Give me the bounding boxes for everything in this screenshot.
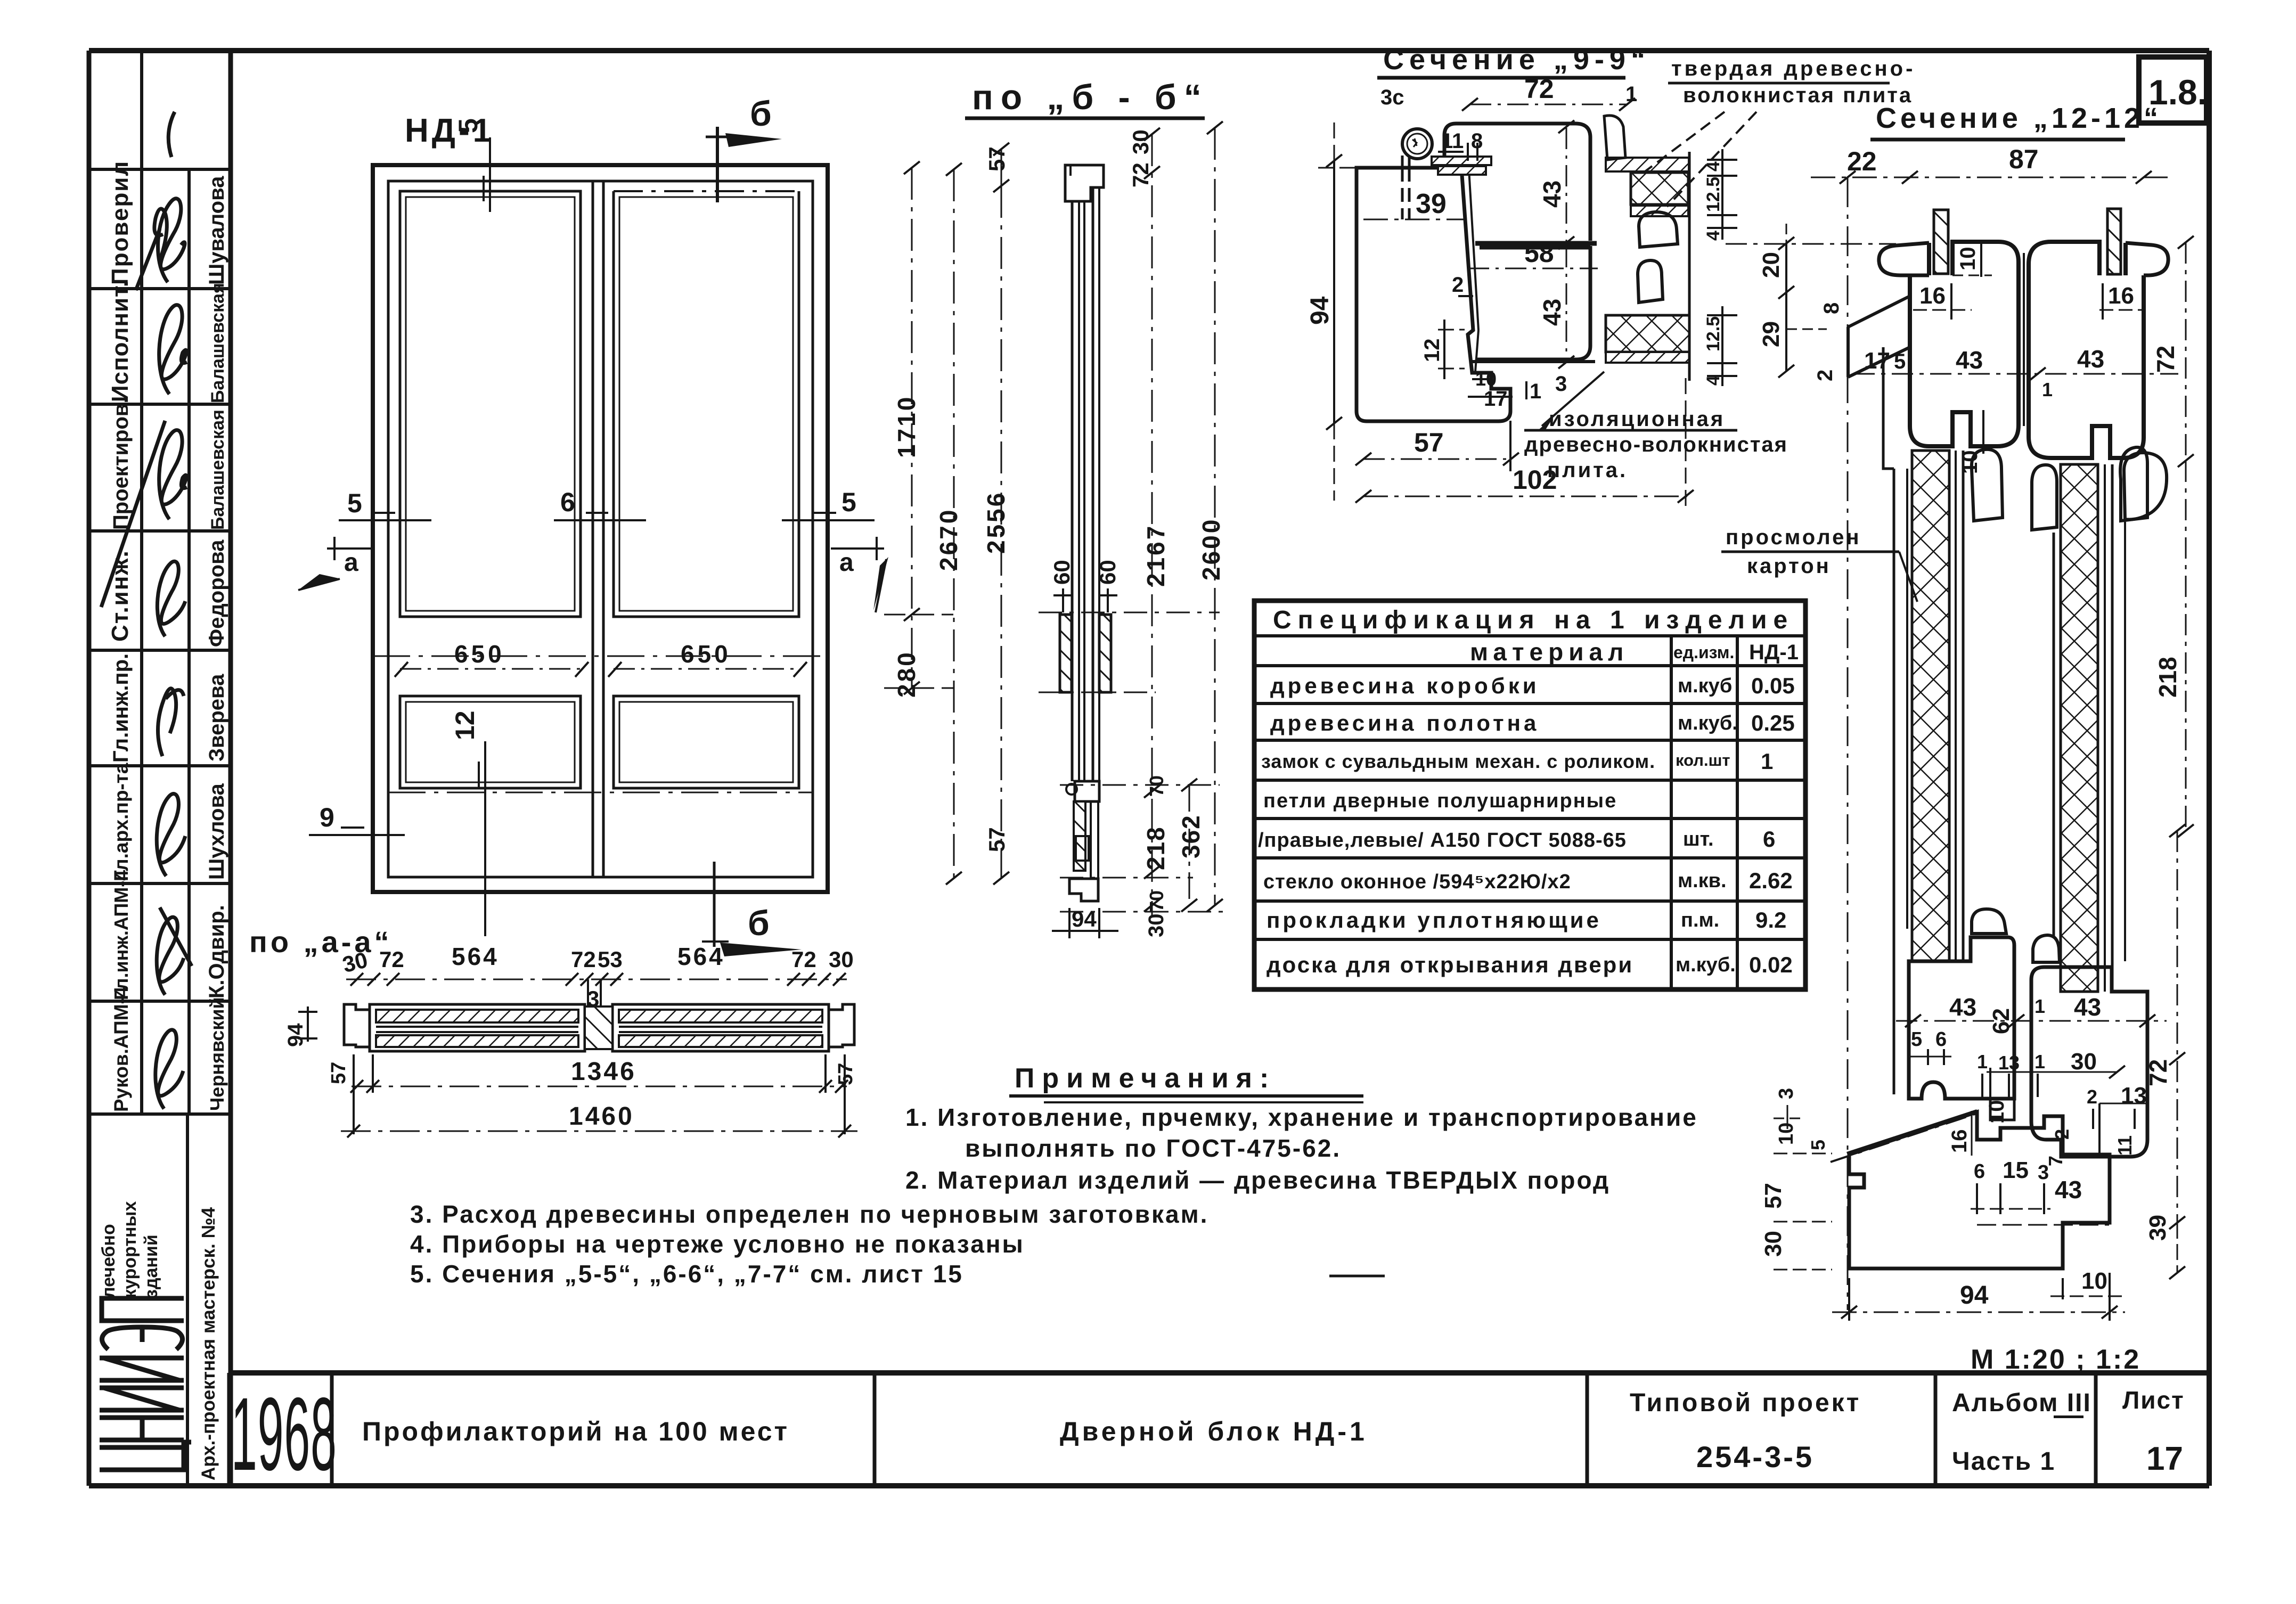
bead bumps below head profiles	[1972, 449, 2003, 521]
svg-text:1346: 1346	[571, 1058, 636, 1086]
fiberboard block upper	[1631, 173, 1688, 204]
svg-text:17: 17	[1864, 348, 1890, 374]
svg-text:12: 12	[450, 710, 480, 740]
section mark 6 center mid	[554, 487, 646, 520]
svg-text:Руков.АПМ-4: Руков.АПМ-4	[110, 986, 132, 1112]
svg-text:564: 564	[677, 943, 725, 970]
dims 10 17 1 at frame ledge	[1468, 368, 1567, 411]
svg-text:5: 5	[841, 487, 856, 517]
svg-text:2: 2	[2051, 1129, 2073, 1140]
svg-text:12.5: 12.5	[1703, 316, 1723, 351]
svg-text:Арх.-проектная мастерск. №4: Арх.-проектная мастерск. №4	[198, 1207, 219, 1480]
svg-text:a: a	[344, 549, 358, 577]
svg-text:1710: 1710	[893, 395, 920, 458]
profile body	[1910, 242, 2019, 446]
svg-text:6: 6	[1974, 1160, 1985, 1183]
svg-text:16: 16	[1948, 1130, 1971, 1153]
dim 650 left leaf	[395, 640, 589, 677]
dim line 2167 / 72 / 30 / 218 / 70	[1128, 128, 1170, 937]
svg-text:39: 39	[1416, 189, 1447, 219]
dim cluster middle (head)	[1913, 240, 2144, 474]
39 right bottom	[2177, 1223, 2178, 1273]
svg-text:15: 15	[2003, 1157, 2029, 1183]
section mark б bottom with arrow	[702, 862, 802, 956]
dim 39	[1363, 219, 1464, 220]
frame head slanted architrave left	[1848, 296, 1910, 377]
svg-text:по „а-а“: по „а-а“	[249, 925, 393, 959]
thin section top cap	[1065, 165, 1104, 201]
left strip bottom cell: institute logo and texts	[99, 1201, 219, 1480]
svg-text:17: 17	[2146, 1441, 2183, 1477]
svg-text:43: 43	[2077, 345, 2104, 373]
svg-text:1: 1	[1761, 749, 1773, 774]
svg-text:твердая древесно-: твердая древесно-	[1671, 57, 1915, 80]
svg-text:3: 3	[1775, 1088, 1797, 1099]
dim 72 top	[1470, 104, 1627, 105]
dim 650 right leaf	[608, 640, 807, 677]
vertical glazing strips right leaf	[2054, 464, 2125, 992]
svg-text:10: 10	[1475, 368, 1497, 390]
svg-text:43: 43	[1538, 181, 1566, 208]
dim line 2600	[1197, 121, 1225, 912]
svg-text:218: 218	[2154, 657, 2181, 698]
ear lobe	[2126, 243, 2168, 275]
svg-text:2: 2	[2087, 1086, 2097, 1108]
svg-text:13: 13	[2121, 1083, 2147, 1109]
svg-text:218: 218	[1142, 826, 1170, 870]
door frame inner	[388, 181, 813, 877]
dim 43 43 chain at mid head	[1813, 302, 2178, 400]
svg-text:Балашевская: Балашевская	[208, 410, 228, 530]
svg-text:94: 94	[284, 1023, 307, 1047]
svg-text:60: 60	[1095, 560, 1120, 585]
svg-text:57: 57	[835, 1063, 857, 1085]
thin section bottom assembly	[1066, 781, 1099, 901]
bead middle pieces	[1639, 212, 1678, 247]
svg-text:Сечение „9-9“: Сечение „9-9“	[1383, 44, 1650, 76]
dim line 2670	[935, 163, 962, 885]
rail centerline dashed	[373, 656, 828, 657]
svg-text:72: 72	[1128, 162, 1153, 187]
svg-text:1: 1	[2034, 995, 2045, 1017]
svg-text:10: 10	[1775, 1123, 1797, 1145]
svg-text:м.куб.: м.куб.	[1678, 712, 1738, 734]
lower dim cluster of section 12-12	[1760, 824, 2185, 1321]
svg-text:Гл.арх.пр-та: Гл.арх.пр-та	[110, 763, 132, 881]
svg-text:изоляционная: изоляционная	[1549, 407, 1725, 431]
svg-text:древесина полотна: древесина полотна	[1270, 710, 1539, 735]
svg-text:выполнять по ГОСТ-475-62.: выполнять по ГОСТ-475-62.	[965, 1134, 1341, 1162]
svg-text:a: a	[839, 549, 854, 577]
gap line between leaves	[2023, 253, 2025, 426]
label: изоляционная древесно-волокнистая плита	[1524, 407, 1788, 482]
svg-text:0.02: 0.02	[1749, 952, 1793, 977]
svg-text:прокладки уплотняющие: прокладки уплотняющие	[1267, 907, 1602, 932]
svg-text:Гл.инж.пр.: Гл.инж.пр.	[109, 653, 133, 763]
svg-text:9: 9	[320, 803, 334, 832]
svg-text:254-3-5: 254-3-5	[1696, 1440, 1814, 1474]
svg-text:2670: 2670	[935, 508, 962, 571]
svg-text:564: 564	[452, 943, 499, 970]
svg-text:94: 94	[1960, 1281, 1989, 1310]
svg-text:Шухлова: Шухлова	[205, 783, 228, 880]
title по б-б	[972, 77, 1209, 117]
svg-text:ед.изм.: ед.изм.	[1673, 643, 1734, 662]
sill profile	[1849, 1112, 2110, 1269]
tenon pin hatched	[1934, 210, 1948, 274]
svg-text:древесина коробки: древесина коробки	[1270, 673, 1540, 698]
opening board slanted	[1831, 1111, 1977, 1162]
svg-text:11: 11	[2114, 1135, 2136, 1156]
label: твердая древесно-волокнистая плита	[1671, 57, 1915, 107]
svg-text:картон: картон	[1747, 554, 1831, 578]
svg-text:1: 1	[1977, 1051, 1988, 1073]
svg-text:Примечания:: Примечания:	[1015, 1063, 1276, 1094]
svg-text:Спецификация на 1 изделие: Спецификация на 1 изделие	[1273, 606, 1794, 634]
svg-text:30: 30	[2071, 1049, 2097, 1075]
svg-text:Профилакторий на 100 мест: Профилакторий на 100 мест	[362, 1417, 789, 1446]
dim 43 lower chain	[1566, 246, 1567, 362]
72 right lower	[2177, 831, 2178, 1223]
svg-text:22: 22	[1847, 146, 1877, 176]
svg-text:1. Изготовление, прчемку, хра: 1. Изготовление, прчемку, хранение и тра…	[905, 1103, 1698, 1131]
title Сечение 12-12	[1876, 102, 2162, 134]
svg-text:доска для открывания двери: доска для открывания двери	[1267, 952, 1633, 977]
svg-text:шт.: шт.	[1683, 828, 1714, 850]
svg-text:10: 10	[1985, 1100, 2008, 1124]
svg-text:87: 87	[2009, 144, 2039, 174]
svg-text:4: 4	[1703, 231, 1723, 241]
dim 218 right	[2154, 461, 2194, 837]
svg-text:43: 43	[2055, 1176, 2082, 1204]
svg-text:30: 30	[1760, 1231, 1786, 1257]
door leaf bottom rail	[1476, 246, 1590, 359]
dim 12	[1420, 320, 1465, 379]
dim line 1710/280	[884, 161, 953, 698]
dim 11 8	[1438, 129, 1483, 161]
svg-text:б: б	[750, 94, 772, 133]
svg-text:43: 43	[1956, 346, 1983, 374]
svg-text:древесно-волокнистая: древесно-волокнистая	[1524, 433, 1788, 456]
left head profile (leaf top rail)	[1879, 210, 2019, 446]
svg-text:2: 2	[1452, 273, 1464, 297]
svg-text:72: 72	[1524, 74, 1554, 104]
svg-text:Чернявский: Чернявский	[206, 997, 228, 1111]
top dim chain 30 72 564 72 53 564 72 30	[340, 943, 853, 1011]
svg-text:43: 43	[1949, 993, 1976, 1021]
svg-text:НД-1: НД-1	[1749, 641, 1799, 664]
svg-text:5: 5	[347, 488, 362, 518]
svg-text:72: 72	[791, 947, 816, 972]
svg-text:650: 650	[454, 640, 505, 668]
svg-text:30: 30	[829, 947, 854, 972]
left strip role labels	[107, 160, 133, 1112]
dash in top empty cell	[168, 112, 175, 157]
section mark 5 top	[453, 118, 490, 212]
svg-text:п.м.: п.м.	[1681, 909, 1719, 931]
svg-text:замок с сувальдным механ. с ро: замок с сувальдным механ. с роликом.	[1261, 750, 1655, 772]
svg-text:60: 60	[1049, 560, 1074, 585]
svg-text:2556: 2556	[982, 491, 1010, 554]
svg-text:57: 57	[328, 1062, 350, 1084]
svg-text:1: 1	[1625, 83, 1637, 106]
svg-text:1: 1	[2034, 1051, 2045, 1073]
frame rebate inner slant	[1469, 169, 1478, 330]
svg-text:1: 1	[1530, 380, 1541, 403]
svg-text:12: 12	[1420, 339, 1444, 363]
svg-text:Типовой проект: Типовой проект	[1630, 1389, 1861, 1417]
dim 58	[1468, 268, 1598, 269]
left strip signatures	[101, 112, 192, 1109]
svg-text:6: 6	[1763, 826, 1775, 852]
hinge barrel	[1402, 129, 1432, 159]
lock block left leaf	[1909, 937, 2014, 1120]
94 bottom	[1848, 1278, 1850, 1321]
left strip names	[205, 176, 228, 1111]
svg-text:Балашевская: Балашевская	[208, 283, 228, 403]
middle rail lines	[400, 616, 581, 618]
svg-text:М 1:20 ; 1:2: М 1:20 ; 1:2	[1971, 1344, 2140, 1375]
ear lobe	[1879, 243, 1929, 275]
svg-text:94: 94	[1072, 906, 1097, 931]
svg-text:/правые,левые/ А150 ГОСТ 5088-: /правые,левые/ А150 ГОСТ 5088-65	[1258, 829, 1627, 852]
svg-text:зданий: зданий	[141, 1234, 161, 1298]
bottom title block	[229, 1373, 2209, 1486]
43 1 43 chain	[1896, 1020, 2167, 1022]
horizontal dashed tie lines at lock and bottom	[1039, 612, 1223, 912]
thin section body (door leaf edge view)	[1072, 187, 1099, 781]
top dim 22 / 87	[1811, 144, 2173, 184]
svg-text:м.куб: м.куб	[1678, 675, 1732, 697]
svg-text:72: 72	[2144, 1059, 2172, 1086]
svg-text:м.кв.: м.кв.	[1678, 870, 1727, 892]
svg-text:13: 13	[1998, 1052, 2020, 1074]
svg-text:Проектиров.: Проектиров.	[109, 397, 133, 530]
bottom rail dash-dot	[388, 792, 813, 793]
svg-text:72: 72	[2152, 346, 2179, 373]
svg-text:57: 57	[1760, 1183, 1786, 1209]
svg-text:2167: 2167	[1142, 524, 1170, 587]
dim 57	[1355, 421, 1519, 471]
svg-text:8: 8	[1471, 129, 1483, 153]
label по а-а	[249, 925, 393, 959]
svg-text:Дверной блок НД-1: Дверной блок НД-1	[1060, 1417, 1368, 1446]
left leaf glass panel	[400, 191, 581, 617]
svg-text:по „б - б“: по „б - б“	[972, 77, 1209, 117]
svg-text:Исполнит.: Исполнит.	[107, 280, 133, 402]
svg-text:30: 30	[1128, 129, 1153, 154]
section mark б top with arrow	[706, 94, 782, 202]
svg-text:3с: 3с	[1380, 86, 1404, 109]
section mark a right	[831, 537, 888, 612]
lock blocks on thin section	[1060, 615, 1072, 692]
door leaf top rail	[1444, 124, 1590, 241]
right side insulation stack: thin hard board strip	[1606, 158, 1689, 171]
glazing bead top	[1604, 116, 1625, 160]
svg-text:70: 70	[1146, 890, 1167, 912]
svg-text:39: 39	[2145, 1215, 2171, 1241]
hinge leaf plates	[1402, 156, 1409, 168]
svg-text:Шувалова: Шувалова	[205, 176, 228, 285]
svg-text:лечебно: лечебно	[99, 1224, 119, 1298]
svg-text:м.куб.: м.куб.	[1676, 954, 1736, 976]
svg-text:11: 11	[1441, 129, 1464, 153]
svg-text:30: 30	[1145, 914, 1168, 938]
sheet number box 1.8.	[2139, 57, 2207, 123]
svg-text:курортных: курортных	[120, 1201, 140, 1298]
svg-text:Проверил: Проверил	[107, 160, 133, 285]
svg-text:17: 17	[1484, 387, 1508, 411]
dim 3 at joint	[587, 979, 589, 1011]
section mark a left	[298, 537, 373, 590]
svg-text:10: 10	[2081, 1268, 2107, 1294]
dim 72 right of head	[2152, 236, 2194, 467]
dim 60 60 on thin section	[1049, 560, 1120, 612]
svg-text:94: 94	[1306, 296, 1334, 325]
svg-text:6: 6	[560, 487, 575, 517]
section mark 12	[450, 710, 485, 936]
section mark 5 left mid	[339, 488, 431, 520]
vertical glazing strips left leaf	[1894, 451, 1963, 1094]
svg-text:5. Сечения „5-5“, „6-6“, „7: 5. Сечения „5-5“, „6-6“, „7-7“ см. лист …	[410, 1260, 963, 1288]
dim 94 bottom of thin section	[1052, 906, 1118, 938]
svg-text:Альбом III: Альбом III	[1952, 1389, 2091, 1417]
svg-text:57: 57	[984, 146, 1009, 171]
dim 1460	[341, 1102, 857, 1137]
svg-text:43: 43	[1538, 299, 1566, 326]
svg-text:Ст.инж.: Ст.инж.	[107, 550, 133, 642]
svg-text:10: 10	[1956, 247, 1980, 271]
title Сечение 9-9	[1383, 44, 1650, 76]
door frame profile (коробка)	[1357, 168, 1510, 421]
plan section body: right leaf	[612, 1004, 829, 1051]
svg-text:58: 58	[1524, 238, 1554, 268]
svg-text:3: 3	[2038, 1161, 2049, 1184]
right frame jamb cap	[829, 1004, 854, 1047]
svg-text:Зверева: Зверева	[205, 674, 228, 762]
svg-text:72: 72	[379, 947, 404, 972]
svg-text:3. Расход древесины определе: 3. Расход древесины определен по черновы…	[410, 1200, 1208, 1228]
dims 20 29	[1758, 224, 1827, 378]
dim 43 top chain	[1566, 128, 1567, 242]
section mark 9	[309, 803, 405, 835]
door frame outer	[373, 165, 828, 892]
svg-text:2: 2	[1813, 370, 1837, 381]
right head profile	[2029, 209, 2168, 458]
svg-text:5: 5	[1807, 1140, 1829, 1150]
svg-text:1460: 1460	[569, 1102, 634, 1131]
plan section body: left leaf	[370, 1004, 585, 1051]
svg-text:2. Материал изделий — древес: 2. Материал изделий — древесина ТВЕРДЫХ …	[905, 1166, 1610, 1194]
svg-text:петли дверные полушарнирные: петли дверные полушарнирные	[1263, 790, 1617, 812]
svg-text:5: 5	[1911, 1028, 1922, 1051]
cancellation slash	[101, 421, 165, 607]
svg-text:29: 29	[1758, 321, 1784, 347]
svg-text:1968: 1968	[231, 1377, 337, 1493]
svg-text:Лист: Лист	[2122, 1386, 2185, 1414]
dim 1346 with 57 ends	[328, 1054, 857, 1134]
svg-text:16: 16	[1919, 283, 1946, 309]
svg-text:просмолен: просмолен	[1726, 526, 1861, 549]
left title strip grid	[89, 51, 231, 1486]
lower panels	[400, 696, 581, 788]
dim line 362	[1177, 779, 1205, 912]
dim line 2556 with 57 ends	[982, 143, 1010, 885]
svg-text:5: 5	[453, 118, 483, 133]
svg-text:53: 53	[598, 947, 623, 972]
svg-text:Гл.инж.АПМ-4: Гл.инж.АПМ-4	[110, 870, 132, 1000]
svg-text:20: 20	[1758, 252, 1784, 278]
left long extension line	[1847, 177, 1849, 1310]
dim 94 left	[1306, 122, 1363, 501]
fiberboard block lower	[1606, 315, 1689, 352]
lock block right leaf	[2031, 967, 2147, 1157]
svg-text:4. Приборы на чертеже услов: 4. Приборы на чертеже условно не показан…	[410, 1230, 1025, 1258]
svg-text:650: 650	[681, 640, 731, 668]
svg-text:0.25: 0.25	[1751, 710, 1795, 735]
svg-text:плита.: плита.	[1547, 459, 1628, 482]
svg-text:б: б	[748, 903, 770, 943]
svg-text:К.Одвир.: К.Одвир.	[205, 905, 228, 999]
svg-text:57: 57	[984, 827, 1009, 852]
svg-text:70: 70	[1146, 775, 1167, 797]
просмолен картон label	[1726, 526, 1861, 578]
svg-text:9.2: 9.2	[1755, 907, 1786, 932]
section mark 5 right mid	[782, 487, 875, 520]
svg-text:1: 1	[2042, 379, 2053, 400]
svg-text:Федорова: Федорова	[205, 539, 228, 647]
svg-text:стекло оконное /594⁵х22Ю/х2: стекло оконное /594⁵х22Ю/х2	[1263, 871, 1571, 893]
right leaf glass panel	[614, 191, 799, 617]
dim 94 left of plan section	[284, 1006, 317, 1047]
svg-text:8: 8	[1820, 302, 1843, 314]
middle joint	[585, 1006, 612, 1049]
svg-text:280: 280	[893, 650, 920, 698]
svg-text:кол.шт: кол.шт	[1676, 751, 1730, 770]
dim 102	[1355, 378, 1694, 506]
svg-text:Часть 1: Часть 1	[1952, 1447, 2055, 1476]
svg-text:2.62: 2.62	[1749, 868, 1793, 893]
svg-text:362: 362	[1177, 814, 1205, 858]
right small dims 4 12.5 4	[1703, 149, 1737, 241]
center meeting stiles	[592, 181, 594, 877]
svg-text:57: 57	[1414, 428, 1444, 457]
svg-text:0.05: 0.05	[1751, 673, 1795, 698]
svg-text:Сечение „12-12“: Сечение „12-12“	[1876, 102, 2162, 134]
svg-text:12.5: 12.5	[1703, 177, 1723, 212]
svg-text:6: 6	[1935, 1028, 1947, 1051]
svg-text:материал: материал	[1470, 638, 1629, 666]
svg-text:5: 5	[1894, 350, 1906, 373]
svg-text:3: 3	[1555, 372, 1567, 396]
svg-text:16: 16	[2108, 283, 2134, 309]
svg-text:72: 72	[571, 947, 596, 972]
svg-text:10: 10	[1958, 451, 1982, 474]
left frame jamb cap	[344, 1004, 370, 1047]
svg-text:43: 43	[2074, 993, 2101, 1021]
svg-text:2600: 2600	[1197, 518, 1225, 580]
svg-text:4: 4	[1703, 375, 1723, 386]
